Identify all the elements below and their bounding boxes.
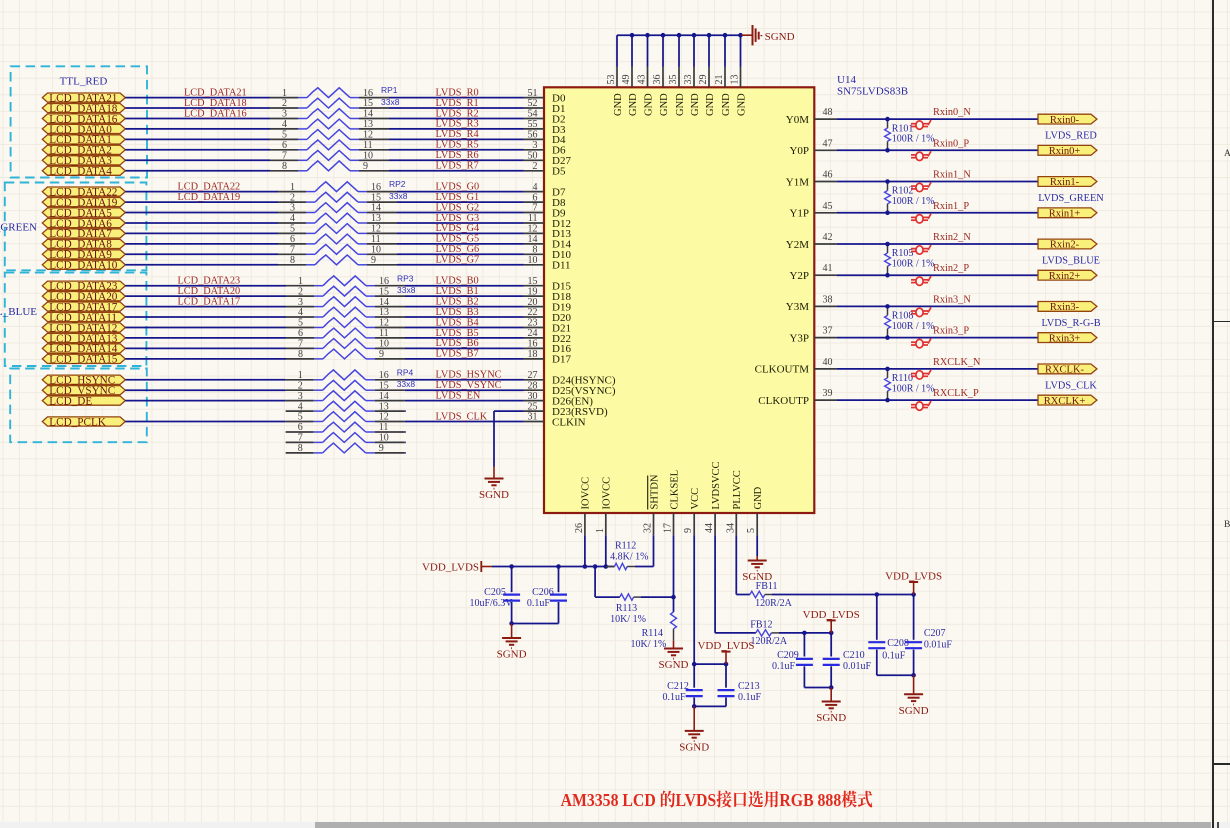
svg-text:55: 55 xyxy=(528,119,538,130)
port LCD_DATA1 xyxy=(42,134,125,146)
svg-text:LCD_DATA17: LCD_DATA17 xyxy=(178,296,241,307)
wire LCD_DATA13 to RP3 pin 6 xyxy=(125,337,286,339)
resistor RP3 element 3 (pins 3/14) xyxy=(286,297,405,308)
svg-text:LVDS_GREEN: LVDS_GREEN xyxy=(1038,193,1104,204)
U14 pin 54 (D2) xyxy=(524,109,566,126)
net label LVDS_R2 xyxy=(436,108,479,119)
resistor R101 100R termination xyxy=(885,119,935,150)
svg-text:10K/ 1%: 10K/ 1% xyxy=(630,639,666,650)
power port VDD_LVDS (C210) xyxy=(803,609,860,633)
net label LVDS_G0 xyxy=(436,181,480,192)
net label LCD_DATA23 xyxy=(178,276,241,287)
wire LCD_DATA9 to RP2 pin 7 xyxy=(125,253,278,255)
junction xyxy=(885,367,890,372)
svg-text:FB12: FB12 xyxy=(750,619,772,630)
svg-text:8: 8 xyxy=(298,349,303,360)
svg-text:52: 52 xyxy=(528,98,538,109)
wire stub RP4 pin 4 xyxy=(285,410,288,412)
svg-text:LVDS_R3: LVDS_R3 xyxy=(436,119,479,130)
svg-text:C205: C205 xyxy=(484,587,506,598)
port LCD_DATA22 xyxy=(42,186,125,198)
svg-text:RP2: RP2 xyxy=(389,179,406,189)
svg-text:16: 16 xyxy=(371,182,381,193)
svg-text:53: 53 xyxy=(606,75,617,85)
svg-text:10: 10 xyxy=(528,255,538,266)
net label LVDS_B0 xyxy=(436,276,479,287)
wire stub RP4 pin 13 xyxy=(405,410,406,412)
svg-text:10: 10 xyxy=(363,151,373,162)
svg-text:10: 10 xyxy=(379,433,389,444)
differential pair marker xyxy=(911,183,931,192)
svg-text:SGND: SGND xyxy=(679,741,709,753)
svg-text:LVDS_CLK: LVDS_CLK xyxy=(1045,380,1097,391)
svg-text:LVDS_G3: LVDS_G3 xyxy=(436,213,480,224)
U14 pin 11 (D12) xyxy=(524,213,571,230)
svg-text:6: 6 xyxy=(298,422,303,433)
U14 pin 51 (D0) xyxy=(524,88,566,105)
junction xyxy=(802,631,807,636)
svg-text:8: 8 xyxy=(298,443,303,454)
wire LCD_DATA3 to RP1 pin 7 xyxy=(125,159,270,161)
svg-text:2: 2 xyxy=(282,98,287,109)
svg-text:11: 11 xyxy=(379,422,389,433)
svg-text:15: 15 xyxy=(363,98,373,109)
wire LCD_HSYNC to RP4 pin 1 xyxy=(125,379,285,381)
U14 pin 21 (GND) xyxy=(714,67,732,117)
resistor RP1 element 7 (pins 7/10) xyxy=(270,151,389,162)
junction xyxy=(692,704,697,709)
U14 pin 49 (GND) xyxy=(621,67,639,117)
resistor RP3 element 2 (pins 2/15) xyxy=(286,286,405,297)
svg-text:47: 47 xyxy=(823,138,833,149)
resistor RP1 element 5 (pins 5/12) xyxy=(270,130,389,141)
svg-text:GND: GND xyxy=(753,486,764,509)
svg-text:34: 34 xyxy=(725,523,736,533)
U14 pin 17 (CLKSEL) xyxy=(663,470,681,535)
U14 pin 44 (LVDSVCC) xyxy=(704,461,722,535)
wire D23(RSVD) to SGND xyxy=(494,411,524,466)
svg-text:14: 14 xyxy=(363,109,373,120)
port LCD_DATA9 xyxy=(42,249,125,261)
svg-text:LCD_DE: LCD_DE xyxy=(49,395,92,407)
svg-text:11: 11 xyxy=(371,234,381,245)
junction xyxy=(677,33,682,38)
U14 pin 56 (D4) xyxy=(524,130,566,147)
svg-text:13: 13 xyxy=(730,75,741,85)
resistor RP2 element 7 (pins 7/10) xyxy=(278,245,397,256)
svg-text:7: 7 xyxy=(290,245,295,256)
junction xyxy=(911,673,916,678)
port LCD_DATA12 xyxy=(42,322,125,334)
wire IOVCC pin26 to rail xyxy=(584,535,586,566)
svg-text:LVDS: LVDS xyxy=(676,790,717,810)
U14 pin 8 (D10) xyxy=(524,245,572,262)
svg-text:SHTDN: SHTDN xyxy=(649,474,660,509)
U14 pin 29 (GND) xyxy=(698,67,716,117)
svg-text:13: 13 xyxy=(371,213,381,224)
svg-text:TTL_RED: TTL_RED xyxy=(60,75,108,87)
net label LVDS_EN xyxy=(436,390,481,401)
svg-text:SGND: SGND xyxy=(497,649,527,661)
svg-text:15: 15 xyxy=(379,380,389,391)
port Rxin2- xyxy=(1038,239,1097,251)
wire LVDS_VSYNC xyxy=(405,389,524,391)
wire LCD_DATA16 to RP1 pin 3 xyxy=(125,118,270,120)
ground SGND (pin 5) xyxy=(742,556,772,583)
U14 pin 52 (D1) xyxy=(524,98,566,115)
svg-text:0.1uF: 0.1uF xyxy=(882,650,906,661)
svg-text:GND: GND xyxy=(736,93,747,116)
value SN75LVDS83B xyxy=(837,86,908,98)
power port VDD_LVDS (left) xyxy=(422,561,492,573)
capacitor C207 0.01uF xyxy=(905,595,952,676)
wire LCD_DATA0 to RP1 pin 4 xyxy=(125,128,270,130)
svg-text:LVDS_R5: LVDS_R5 xyxy=(436,140,479,151)
svg-text:38: 38 xyxy=(823,294,833,305)
svg-text:Rxin3_P: Rxin3_P xyxy=(933,326,969,337)
wire LVDS_B2 xyxy=(405,306,524,308)
resistor RP1 element 8 (pins 8/9) xyxy=(270,161,389,172)
svg-text:LCD_DATA21: LCD_DATA21 xyxy=(184,87,247,98)
U14 pin 55 (D3) xyxy=(524,119,566,136)
svg-text:49: 49 xyxy=(621,75,632,85)
svg-text:22: 22 xyxy=(528,307,538,318)
resistor R114 10K xyxy=(630,612,676,650)
svg-text:100R / 1%: 100R / 1% xyxy=(892,383,935,394)
net label LCD_DATA21 xyxy=(184,87,247,98)
resistor R105 100R termination xyxy=(885,244,935,275)
svg-text:4: 4 xyxy=(533,182,538,193)
svg-text:28: 28 xyxy=(528,380,538,391)
svg-text:VDD_LVDS: VDD_LVDS xyxy=(885,571,942,583)
wire LVDS_G6 xyxy=(397,253,524,255)
U14 pin 53 (GND) xyxy=(606,67,624,117)
svg-text:8: 8 xyxy=(282,161,287,172)
svg-text:6: 6 xyxy=(290,234,295,245)
resistor RP2 element 5 (pins 5/12) xyxy=(278,224,397,235)
svg-text:12: 12 xyxy=(363,130,373,141)
svg-text:R114: R114 xyxy=(642,628,663,639)
svg-text:100R / 1%: 100R / 1% xyxy=(892,134,935,145)
junction xyxy=(509,621,514,626)
wire C209/C210 ground rail xyxy=(804,687,831,689)
svg-text:39: 39 xyxy=(823,388,833,399)
wire LVDS_B3 xyxy=(405,316,524,318)
resistor RP3 element 5 (pins 5/12) xyxy=(286,318,405,329)
svg-text:LCD_DATA16: LCD_DATA16 xyxy=(184,108,247,119)
svg-text:Rxin2+: Rxin2+ xyxy=(1049,271,1081,282)
svg-text:7: 7 xyxy=(298,339,303,350)
svg-text:51: 51 xyxy=(528,88,538,99)
svg-text:RXCLK_P: RXCLK_P xyxy=(933,388,979,399)
U14 pin 10 (D11) xyxy=(524,255,571,272)
net label LVDS_G2 xyxy=(436,202,480,213)
U14 pin 34 (PLLVCC) xyxy=(725,470,743,535)
wire LVDS_B4 xyxy=(405,327,524,329)
wire LCD_DATA11 to RP3 pin 4 xyxy=(125,316,286,318)
svg-text:LVDS_R0: LVDS_R0 xyxy=(436,87,479,98)
svg-text:GND: GND xyxy=(659,93,670,116)
resistor RP1 element 3 (pins 3/14) xyxy=(270,109,389,120)
svg-text:11: 11 xyxy=(379,328,389,339)
ground SGND (C210) xyxy=(816,688,846,725)
resistor RP2 element 4 (pins 4/13) xyxy=(278,213,397,224)
U14 pin 6 (D8) xyxy=(524,192,566,209)
port LCD_DATA7 xyxy=(42,228,125,240)
wire LCD_DATA18 to RP1 pin 2 xyxy=(125,107,270,109)
svg-text:5: 5 xyxy=(298,318,303,329)
wire LVDS_R5 xyxy=(389,149,524,151)
svg-text:2: 2 xyxy=(533,161,538,172)
wire GND pin5 xyxy=(756,535,758,556)
port LCD_HSYNC xyxy=(42,375,125,387)
port RXCLK- xyxy=(1038,364,1097,376)
svg-text:18: 18 xyxy=(528,349,538,360)
svg-text:3: 3 xyxy=(298,391,303,402)
wire R112 to SHTDN pin32 xyxy=(635,535,654,566)
U14 pin 48 (Y0M) xyxy=(786,107,837,126)
junction xyxy=(885,273,890,278)
svg-text:Rxin3_N: Rxin3_N xyxy=(933,294,971,305)
wire LVDS_G1 xyxy=(397,201,524,203)
svg-text:10: 10 xyxy=(371,245,381,256)
capacitor C212 0.1uF xyxy=(662,664,702,706)
svg-text:RP1: RP1 xyxy=(381,85,398,95)
wire R113 to CLKSEL pin17 xyxy=(641,535,674,612)
capacitor C213 0.1uF xyxy=(718,664,762,706)
svg-text:VDD_LVDS: VDD_LVDS xyxy=(697,640,754,652)
U14 pin 9 (VCC) xyxy=(683,488,701,535)
svg-text:9: 9 xyxy=(363,161,368,172)
svg-text:Rxin0_P: Rxin0_P xyxy=(933,138,969,149)
svg-text:LVDS_G4: LVDS_G4 xyxy=(436,223,480,234)
U14 pin 50 (D27) xyxy=(524,151,572,168)
svg-text:C210: C210 xyxy=(843,650,865,661)
U14 pin 23 (D21) xyxy=(524,318,571,335)
designator RP3 xyxy=(397,273,414,283)
wire LVDS_G7 xyxy=(397,264,524,266)
U14 pin 4 (D7) xyxy=(524,182,566,199)
svg-text:TTL_BLUE: TTL_BLUE xyxy=(0,306,37,318)
port Rxin3- xyxy=(1038,302,1097,314)
svg-text:1: 1 xyxy=(298,276,303,287)
U14 pin 43 (GND) xyxy=(637,67,655,117)
svg-text:13: 13 xyxy=(363,119,373,130)
svg-text:LVDS_B7: LVDS_B7 xyxy=(436,349,479,360)
svg-text:19: 19 xyxy=(528,286,538,297)
net label LVDS_G5 xyxy=(436,234,480,245)
svg-text:16: 16 xyxy=(379,276,389,287)
wire LCD_DATA20 to RP3 pin 2 xyxy=(125,295,286,297)
net label LVDS_R3 xyxy=(436,119,479,130)
svg-text:LVDS_B4: LVDS_B4 xyxy=(436,317,479,328)
junction xyxy=(885,148,890,153)
wire stub RP4 pin 6 xyxy=(285,431,288,433)
wire C212/C213 ground rail xyxy=(694,705,726,707)
designator RP4 xyxy=(397,367,414,377)
wire PLLVCC pin34 to FB11 xyxy=(736,535,750,594)
svg-text:11: 11 xyxy=(363,140,373,151)
resistor RP4 element 8 (pins 8/9) xyxy=(286,443,405,454)
junction xyxy=(630,33,635,38)
svg-text:31: 31 xyxy=(528,412,538,423)
svg-text:37: 37 xyxy=(823,326,833,337)
svg-text:LVDS_R6: LVDS_R6 xyxy=(436,150,479,161)
wire LVDS_CLK xyxy=(405,421,524,423)
port LCD_DATA4 xyxy=(42,166,125,178)
wire LCD_DATA17 to RP3 pin 3 xyxy=(125,306,286,308)
differential pair marker xyxy=(911,401,931,410)
junction xyxy=(509,564,514,569)
junction xyxy=(604,564,609,569)
junction xyxy=(875,592,880,597)
net label LVDS_G4 xyxy=(436,223,480,234)
resistor RP1 element 4 (pins 4/13) xyxy=(270,119,389,130)
wire stub RP4 pin 7 xyxy=(285,441,288,443)
differential pair marker xyxy=(911,214,931,223)
svg-text:C209: C209 xyxy=(777,650,799,661)
U14 pin 38 (Y3M) xyxy=(786,294,837,313)
junction xyxy=(885,179,890,184)
svg-text:CLKOUTP: CLKOUTP xyxy=(758,395,809,407)
port LCD_DATA8 xyxy=(42,239,125,251)
svg-text:IOVCC: IOVCC xyxy=(602,477,613,510)
port Rxin0- xyxy=(1038,114,1097,126)
U14 pin 40 (CLKOUTM) xyxy=(755,357,837,376)
svg-text:0.1uF: 0.1uF xyxy=(772,661,796,672)
U14 pin 46 (Y1M) xyxy=(786,170,837,189)
svg-text:12: 12 xyxy=(371,224,381,235)
port LCD_PCLK xyxy=(42,416,125,428)
svg-text:13: 13 xyxy=(379,307,389,318)
junction xyxy=(583,564,588,569)
svg-text:LVDS_G2: LVDS_G2 xyxy=(436,202,480,213)
wire LCD_DATA10 to RP2 pin 8 xyxy=(125,264,278,266)
svg-text:LVDS_G0: LVDS_G0 xyxy=(436,181,480,192)
wire LCD_DATA22 to RP2 pin 1 xyxy=(125,191,278,193)
svg-text:FB11: FB11 xyxy=(756,581,778,592)
net label LVDS_HSYNC xyxy=(436,370,502,381)
svg-text:LVDS_B0: LVDS_B0 xyxy=(436,276,479,287)
svg-text:C207: C207 xyxy=(924,628,946,639)
svg-text:4: 4 xyxy=(298,401,303,412)
wire LVDS_B1 xyxy=(405,295,524,297)
wire LCD_DATA4 to RP1 pin 8 xyxy=(125,170,270,172)
U14 pin 20 (D19) xyxy=(524,297,572,314)
svg-text:100R / 1%: 100R / 1% xyxy=(892,196,935,207)
svg-text:D17: D17 xyxy=(552,354,571,366)
net label LVDS_R6 xyxy=(436,150,479,161)
svg-text:LCD_DATA19: LCD_DATA19 xyxy=(178,192,241,203)
svg-text:Rxin0-: Rxin0- xyxy=(1050,115,1080,126)
svg-text:CLKOUTM: CLKOUTM xyxy=(755,364,810,376)
IC U14 SN75LVDS83B body xyxy=(544,87,814,513)
U14 pin 35 (GND) xyxy=(668,67,686,117)
differential pair marker xyxy=(911,339,931,348)
port LCD_DATA19 xyxy=(42,197,125,209)
ground SGND (C207) xyxy=(899,675,929,717)
svg-text:4: 4 xyxy=(298,307,303,318)
svg-text:VCC: VCC xyxy=(690,488,701,510)
svg-text:50: 50 xyxy=(528,151,538,162)
net label Rxin3_P xyxy=(933,326,969,337)
junction xyxy=(885,398,890,403)
ground SGND (D23) xyxy=(479,467,509,502)
svg-text:41: 41 xyxy=(823,263,833,274)
net class label LVDS_GREEN xyxy=(1038,193,1104,204)
port LCD_DATA0 xyxy=(42,124,125,136)
svg-text:5: 5 xyxy=(282,130,287,141)
wire LCD_DATA2 to RP1 pin 6 xyxy=(125,149,270,151)
svg-text:3: 3 xyxy=(298,297,303,308)
wire LVDS_B7 xyxy=(405,358,524,360)
svg-text:120R/2A: 120R/2A xyxy=(750,636,787,647)
svg-text:0.1uF: 0.1uF xyxy=(662,692,686,703)
svg-text:2: 2 xyxy=(298,380,303,391)
net label Rxin0_P xyxy=(933,138,969,149)
resistor R113 10K xyxy=(610,594,646,625)
svg-text:3: 3 xyxy=(533,140,538,151)
U14 pin 24 (D22) xyxy=(524,328,571,345)
svg-text:Y0P: Y0P xyxy=(789,145,809,157)
svg-text:PLLVCC: PLLVCC xyxy=(732,470,743,509)
capacitor C209 0.1uF xyxy=(772,633,813,688)
wire stub RP4 pin 10 xyxy=(405,441,406,443)
svg-text:GND: GND xyxy=(613,93,624,116)
svg-text:15: 15 xyxy=(528,276,538,287)
wire LVDS_G4 xyxy=(397,232,524,234)
svg-text:LVDS_G6: LVDS_G6 xyxy=(436,244,480,255)
svg-text:LVDS_RED: LVDS_RED xyxy=(1045,131,1097,142)
svg-text:9: 9 xyxy=(379,443,384,454)
svg-text:9: 9 xyxy=(379,349,384,360)
U14 pin 45 (Y1P) xyxy=(789,201,836,220)
svg-text:10uF/6.3V: 10uF/6.3V xyxy=(469,598,513,609)
svg-text:Rxin2_N: Rxin2_N xyxy=(933,232,971,243)
net label LVDS_VSYNC xyxy=(436,380,502,391)
wire LVDS_G0 xyxy=(397,191,524,193)
net label LCD_DATA22 xyxy=(178,181,241,192)
svg-text:21: 21 xyxy=(714,75,725,85)
svg-text:14: 14 xyxy=(528,234,538,245)
wire LCD_VSYNC to RP4 pin 2 xyxy=(125,389,285,391)
svg-text:0.01uF: 0.01uF xyxy=(843,661,872,672)
value 33x8 (RP3) xyxy=(397,285,416,295)
wire LVDS_R4 xyxy=(389,138,524,140)
net label LVDS_G3 xyxy=(436,213,480,224)
resistor RP2 element 2 (pins 2/15) xyxy=(278,192,397,203)
wire LVDS_R6 xyxy=(389,159,524,161)
junction xyxy=(829,685,834,690)
svg-text:42: 42 xyxy=(823,232,833,243)
svg-text:R112: R112 xyxy=(615,541,636,552)
port LCD_DATA13 xyxy=(42,333,125,345)
svg-text:8: 8 xyxy=(533,245,538,256)
net label RXCLK_P xyxy=(933,388,979,399)
wire FB12 to VDD_LVDS xyxy=(779,632,831,634)
power port VDD_LVDS (C207) xyxy=(885,571,942,595)
svg-text:1: 1 xyxy=(298,370,303,381)
svg-text:1: 1 xyxy=(290,182,295,193)
junction xyxy=(724,662,729,667)
junction xyxy=(723,33,728,38)
svg-text:GND: GND xyxy=(675,93,686,116)
svg-text:Y3M: Y3M xyxy=(786,301,809,313)
wire LCD_DATA7 to RP2 pin 5 xyxy=(125,232,278,234)
svg-text:RGB 888: RGB 888 xyxy=(779,790,841,810)
value 33x8 (RP4) xyxy=(397,379,416,389)
port LCD_DATA15 xyxy=(42,354,125,366)
